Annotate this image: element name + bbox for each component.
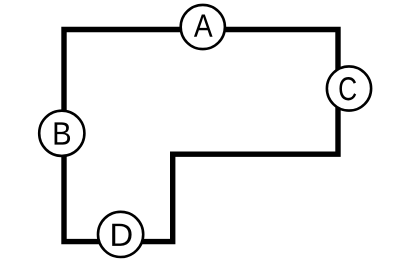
node A (circle on top side) xyxy=(181,5,225,49)
node C (circle on right side) xyxy=(327,66,371,110)
node B (circle on left side) xyxy=(39,111,84,156)
node D (circle on bottom side) xyxy=(98,212,143,257)
wire: L-shaped closed outline (top, right, notch, bottom, left sides) xyxy=(64,30,338,242)
